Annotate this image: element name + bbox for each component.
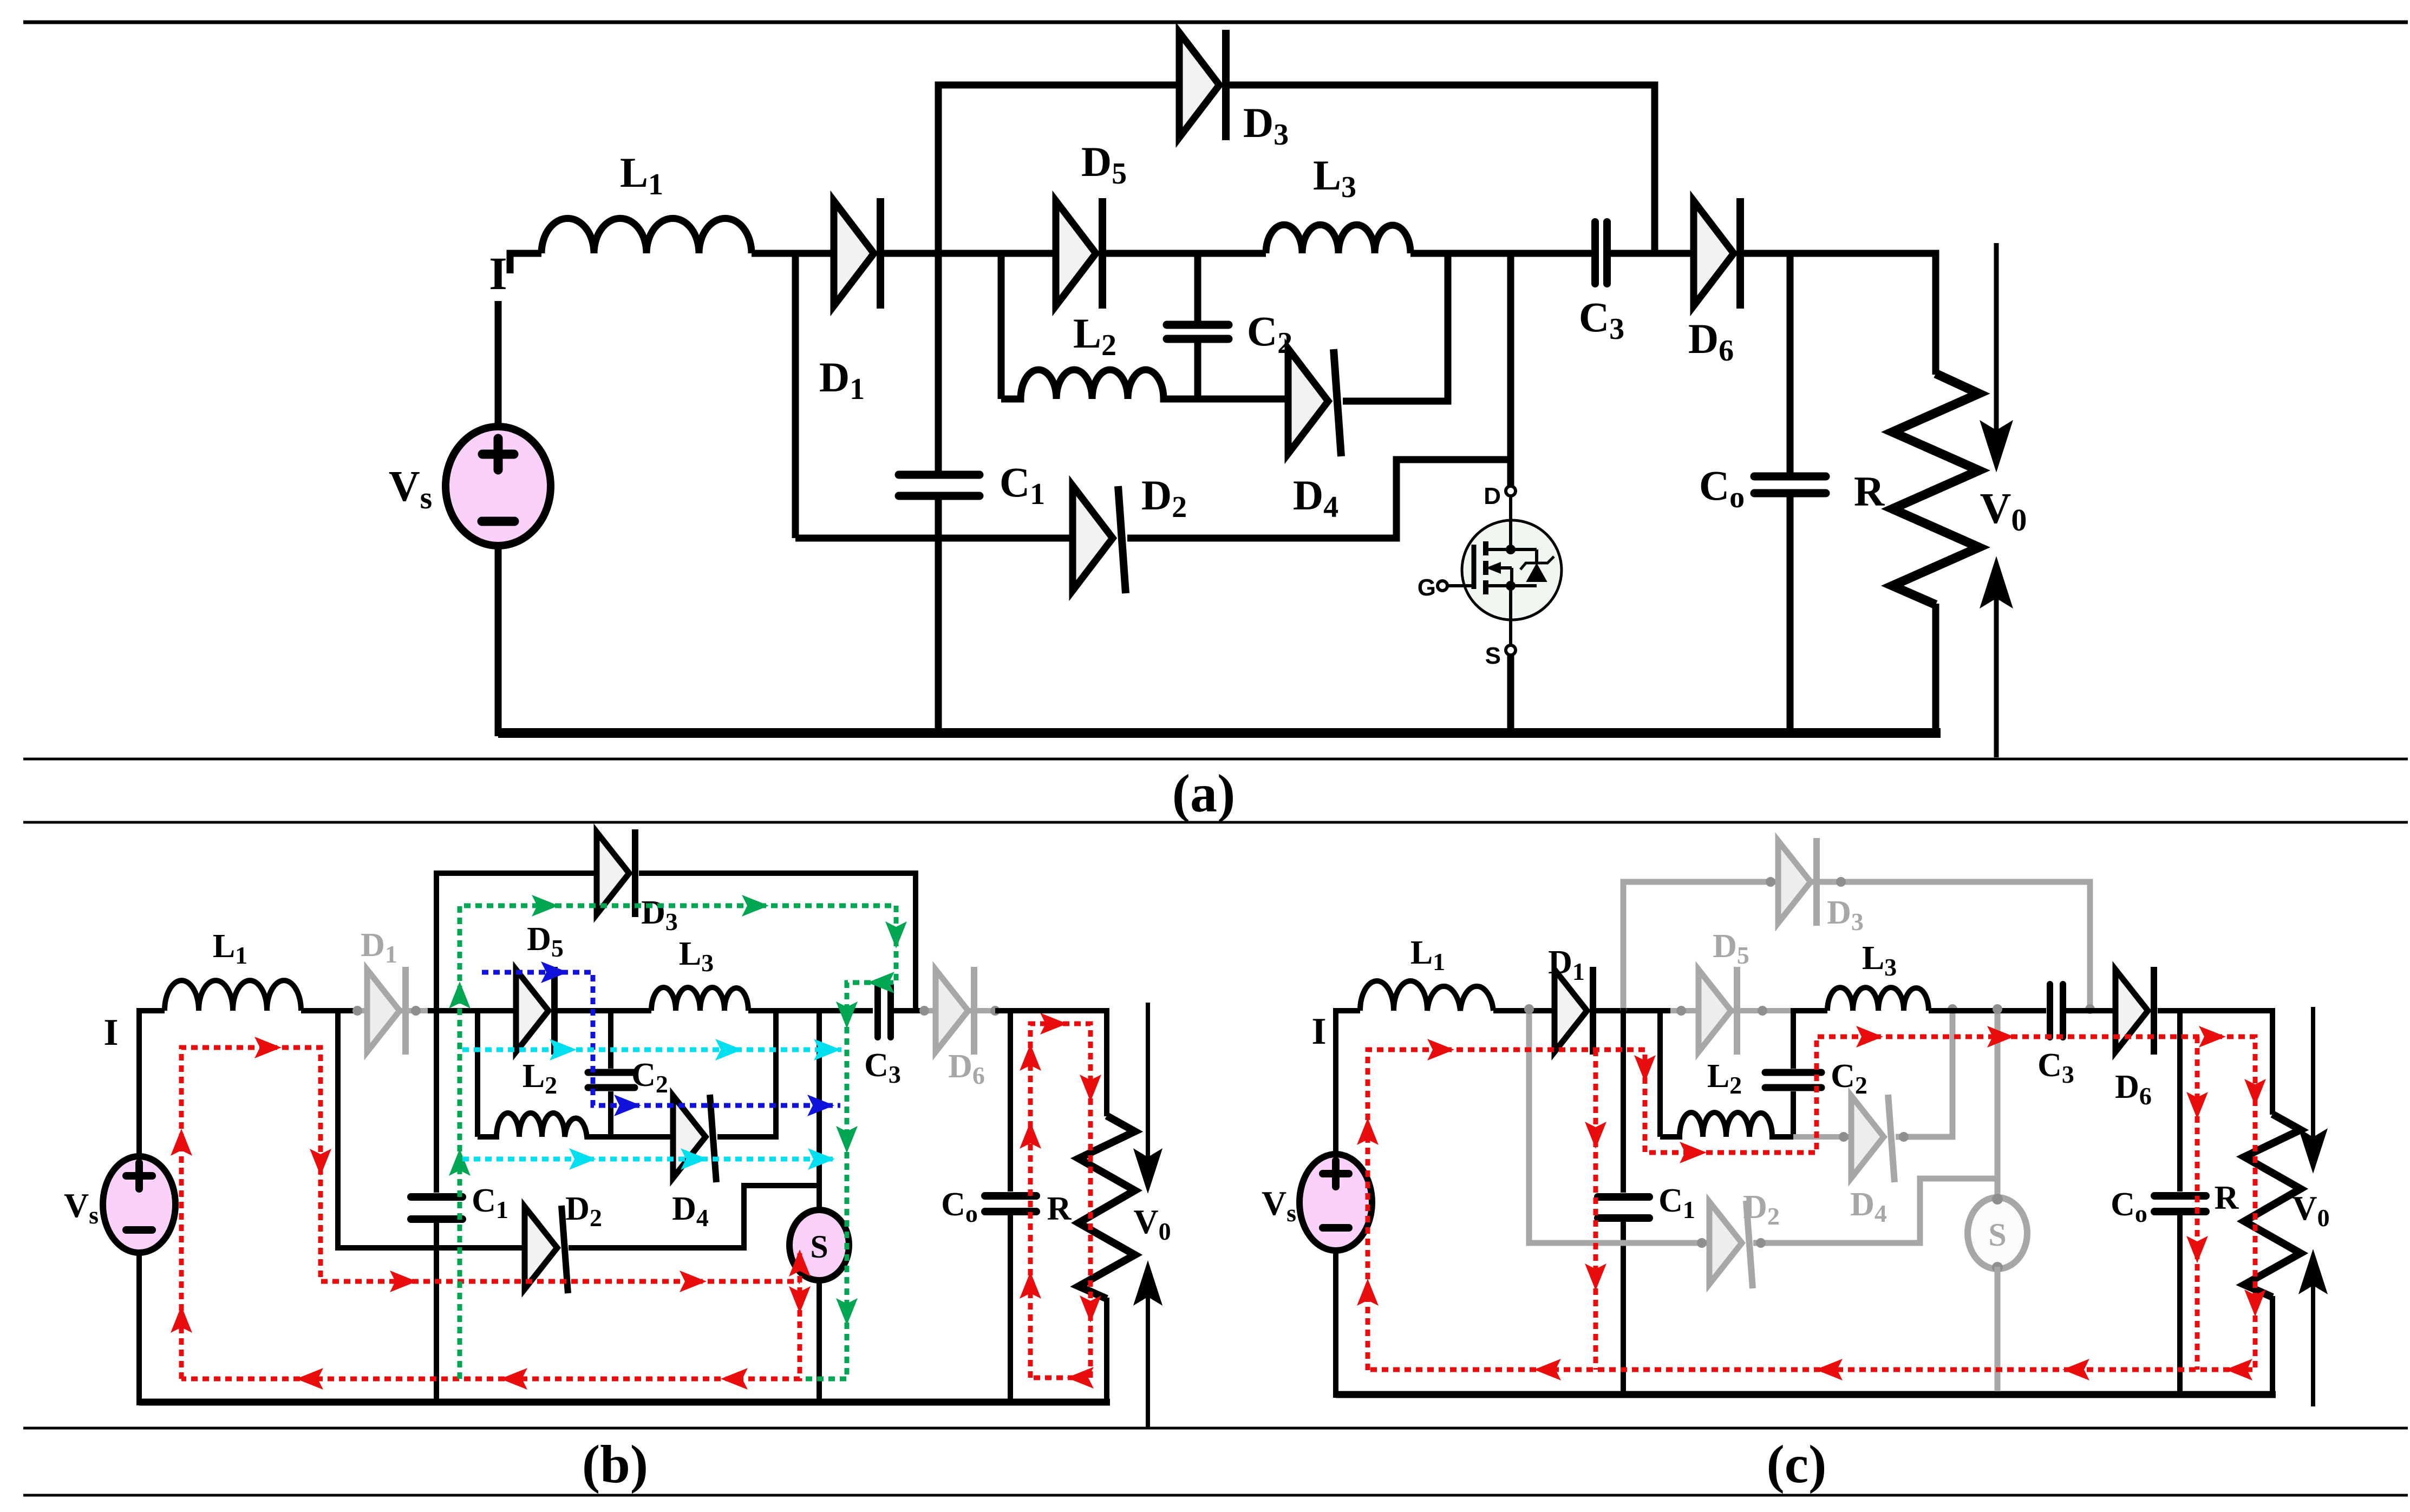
(b) wire: D2 branch elbow from main wire — [338, 1008, 525, 1248]
(c) red current path (main loop) — [1368, 1037, 2255, 1370]
bottom border line — [23, 1494, 2408, 1497]
(a) wire: switch drain vertical — [1507, 250, 1514, 487]
(c) wire: Co vertical — [2177, 1008, 2183, 1192]
(c) bottom rail — [1336, 1391, 2276, 1398]
(a) diode D1 — [834, 198, 880, 309]
(b) voltage source Vs — [103, 1156, 175, 1253]
svg-text:R: R — [2215, 1180, 2239, 1216]
svg-text:G: G — [1418, 574, 1436, 601]
(a) wire: D5 to L3 — [1103, 250, 1266, 257]
(a) bottom rail — [498, 728, 1941, 738]
(b) wire: Co vertical — [1008, 1008, 1013, 1192]
(b) diode D1 (inactive gray) — [357, 1008, 436, 1013]
(a) output voltage V0 arrows — [1984, 243, 2009, 757]
(b) blue current path (D5/C2) — [482, 972, 840, 1105]
(a) wire: C1 to bottom rail — [935, 500, 942, 733]
(a) diode D3 — [1179, 30, 1226, 140]
(c) capacitor Co — [2154, 1196, 2206, 1212]
(c) wire: L2 branch vertical — [1657, 1008, 1663, 1137]
(b) diode D3 — [597, 829, 635, 917]
(b) output voltage V0 arrows — [1137, 1003, 1159, 1428]
(b) capacitor Co — [985, 1196, 1036, 1212]
(b) switch S (on) — [789, 1210, 849, 1280]
(a) wire: Co to bottom rail — [1787, 497, 1794, 733]
(c) wire: D1 to L2 branch and D5 — [1596, 1008, 1678, 1013]
(a) wire: L2 branch vertical — [998, 250, 1005, 399]
(a) wire: D3 to right elbow down — [1227, 85, 1655, 250]
(b) wire: D2 to switch elbow — [569, 1186, 819, 1248]
(a) wire: C3 to D6 — [1610, 250, 1694, 257]
(c) red current path (C1 branch) — [1593, 1050, 1598, 1370]
(b) green current loop (D3/C3) — [460, 906, 896, 1379]
(b) diode D2 — [525, 1206, 568, 1293]
svg-text:(b): (b) — [582, 1434, 648, 1494]
(b) capacitor C2 — [608, 1008, 613, 1069]
(c) capacitor C2 — [1791, 1008, 1796, 1069]
separator line below (a) caption — [23, 821, 2408, 824]
(c) inductor L3 — [1827, 987, 1929, 1011]
top border line — [23, 21, 2408, 24]
(c) diode D6 — [2115, 967, 2154, 1055]
(a) wire: input node I stub — [510, 253, 541, 273]
(b) diode D4 — [673, 1095, 716, 1182]
(b) wire: C1 vertical (top loop to rail) — [434, 873, 439, 1193]
svg-text:S: S — [1988, 1217, 2006, 1253]
(c) resistor R — [2244, 1114, 2301, 1297]
(b) wire: switch drain vertical — [817, 1008, 822, 1214]
(a) voltage source Vs — [446, 427, 551, 546]
(a) wire: L3 to C3 — [1410, 250, 1592, 257]
(b) wire: S to bottom rail — [817, 1279, 822, 1402]
(b) capacitor C3 — [878, 985, 891, 1037]
(a) wire: resistor to bottom rail — [1932, 604, 1939, 732]
(a) inductor L3 — [1266, 225, 1410, 253]
(a) wire: top loop horizontal to D3 — [938, 85, 1179, 88]
(c) wire: Vs to bottom rail — [1333, 1251, 1338, 1398]
(a) wire: vertical branch from L1/D1 node down — [792, 250, 799, 538]
(c) red current path (Co branch) — [2195, 1037, 2200, 1370]
(a) resistor R — [1892, 374, 1979, 605]
(a) wire: D6 to load corner — [1741, 250, 1936, 257]
(c) inductor L1 — [1360, 981, 1493, 1011]
svg-text:I: I — [489, 247, 507, 299]
svg-text:S: S — [810, 1229, 828, 1265]
(a) wire: switch source to bottom rail — [1507, 655, 1514, 733]
separator line above (b)/(c) captions — [23, 1427, 2408, 1430]
separator line above (a) caption — [23, 758, 2408, 761]
(c) main wire: C2 junction through L3 — [1791, 1008, 1827, 1013]
(b) resistor R — [1079, 1116, 1135, 1299]
(a) diode D4 — [1288, 349, 1341, 456]
(c) wire: L1 to D1 — [1493, 1008, 1555, 1013]
(b) diode D6 (inactive gray) — [924, 1008, 995, 1013]
(a) wire: Vs to bottom rail — [495, 545, 502, 736]
(b) cyan current path (D4 lower) — [462, 1157, 836, 1162]
(c) diode D1 — [1555, 967, 1593, 1055]
(c) voltage source Vs — [1299, 1154, 1372, 1251]
(a) diode D2 — [1073, 486, 1126, 593]
(a) diode D6 — [1694, 198, 1740, 309]
svg-text:D: D — [1484, 483, 1501, 509]
(b) diode D5 — [516, 967, 554, 1055]
(c) capacitor C3 — [2050, 984, 2063, 1037]
(c) gray diode D5 (inactive) — [1670, 1008, 1792, 1013]
svg-text:S: S — [1485, 643, 1501, 669]
(b) inductor L1 — [165, 980, 301, 1011]
(a) diode D5 — [1056, 198, 1102, 309]
(b) wire: D1 to D5 — [428, 1008, 516, 1013]
(b) wire: resistor to rail — [1104, 1298, 1109, 1405]
(b) wire: D4 to vertical up — [717, 1008, 776, 1137]
(c) wire: D6 to load corner — [2158, 1008, 2272, 1013]
(b) wire: C3 to D6 — [894, 1008, 927, 1013]
(b) wire: D6 to load corner — [995, 1008, 1107, 1013]
(a) inductor L2 — [1001, 370, 1288, 399]
(c) wire: L3 to C3 — [1929, 1008, 2046, 1013]
(b) red current loop (source/D2/S) — [181, 1048, 800, 1379]
(a) MOSFET switch S — [1418, 483, 1562, 669]
(c) inductor L2 — [1660, 1112, 1793, 1137]
(b) cyan current path (C1/L2 upper) — [462, 1048, 841, 1052]
(b) inductor L2 — [478, 1113, 673, 1137]
svg-text:I: I — [103, 1012, 118, 1053]
(c) capacitor C1 — [1598, 1197, 1649, 1218]
(b) wire: load corner down — [1103, 1011, 1107, 1116]
(b) capacitor C1 — [411, 1197, 462, 1219]
svg-text:R: R — [1047, 1190, 1072, 1227]
(a) capacitor C3 — [1595, 222, 1607, 284]
(b) inductor L3 — [651, 987, 748, 1011]
(c) gray switch S branch (off) — [1995, 1008, 2001, 1201]
(a) capacitor Co — [1754, 476, 1826, 493]
(a) capacitor C2 — [1194, 250, 1201, 321]
svg-text:(c): (c) — [1767, 1434, 1827, 1494]
svg-text:(a): (a) — [1172, 763, 1236, 823]
(a) wire: D2 to switch elbow — [1127, 460, 1511, 538]
(a) wire: L1 to D1 — [752, 250, 834, 257]
svg-text:I: I — [1311, 1011, 1326, 1052]
(b) wire: L1 to D1 — [301, 1008, 357, 1013]
(a) wire: Co branch vertical upper — [1787, 250, 1794, 473]
(b) wire: L3 to C3 — [748, 1008, 873, 1013]
(c) wire: C1 vertical — [1621, 1008, 1626, 1193]
(a) wire: I to Vs — [495, 301, 502, 429]
(a) wire: load corner down to resistor — [1932, 253, 1936, 375]
svg-text:R: R — [1854, 468, 1885, 515]
(c) wire: load corner down — [2269, 1011, 2272, 1115]
(a) wire: D2 row horizontal — [795, 535, 1073, 542]
(b) red current loop (Co/R output) — [1030, 1024, 1090, 1378]
(c) gray top loop with D3 (inactive) — [1623, 882, 2090, 1011]
(b) wire: D5 to L3 — [558, 1008, 651, 1013]
(b) wire: D3 to right elbow — [639, 873, 916, 1011]
(c) wire: resistor to rail — [2270, 1296, 2275, 1398]
(c) wire: source branch left — [1336, 1011, 1360, 1156]
(a) inductor L1 — [541, 218, 752, 253]
(b) wire: source branch left — [139, 1011, 165, 1158]
(b) wire: L2 branch vertical — [475, 1008, 480, 1137]
(c) output voltage V0 arrows — [2302, 1007, 2324, 1406]
(a) wire: node A vertical (top wire to C1) — [935, 85, 942, 471]
(c) wire: C3 to D6 — [2066, 1008, 2115, 1013]
(a) wire: D1 to D5 (node A junction) — [881, 250, 1056, 257]
(c) gray D2 branch (inactive) — [1529, 1008, 1709, 1243]
(a) capacitor C1 — [899, 475, 979, 496]
(b) wire: top loop horizontal — [436, 873, 598, 876]
(b) wire: Vs to bottom rail — [136, 1253, 142, 1405]
(a) wire: D4 to vertical up — [1343, 250, 1448, 401]
(b) bottom rail — [139, 1399, 1110, 1406]
(c) gray diode D4 (inactive) — [1793, 1134, 1851, 1140]
